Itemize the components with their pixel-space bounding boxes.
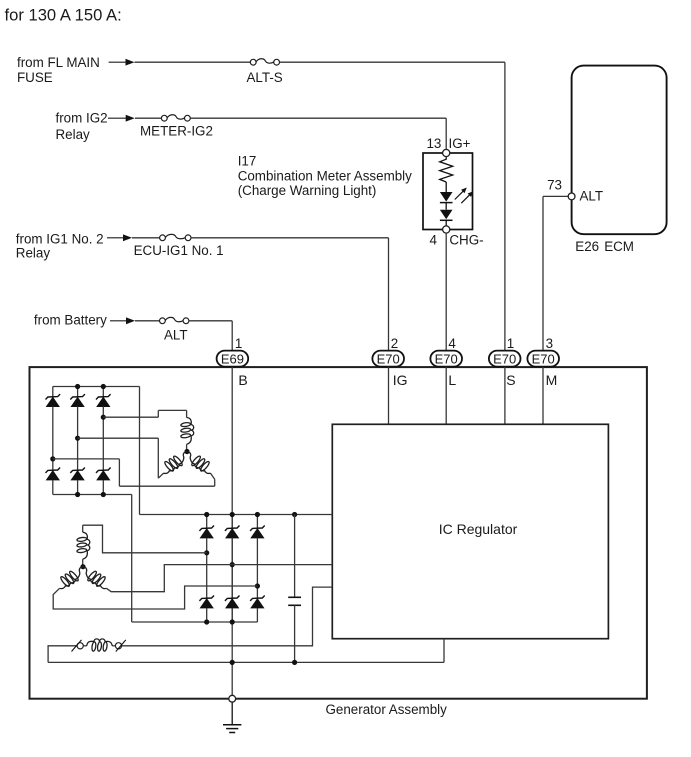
svg-text:from IG1 No. 2: from IG1 No. 2 [16, 232, 104, 247]
svg-text:METER-IG2: METER-IG2 [140, 124, 213, 139]
svg-text:E70: E70 [377, 351, 400, 366]
svg-text:E70: E70 [435, 351, 458, 366]
svg-text:2: 2 [391, 336, 398, 351]
svg-text:S: S [506, 372, 515, 388]
svg-text:from FL MAIN: from FL MAIN [17, 55, 100, 70]
svg-text:1: 1 [507, 336, 514, 351]
svg-text:IC Regulator: IC Regulator [439, 521, 518, 537]
svg-text:FUSE: FUSE [17, 70, 53, 85]
svg-text:I17: I17 [238, 154, 257, 169]
svg-text:4: 4 [430, 233, 438, 248]
svg-text:4: 4 [448, 336, 456, 351]
svg-text:ALT: ALT [580, 188, 604, 203]
svg-text:1: 1 [235, 336, 242, 351]
svg-text:M: M [546, 372, 558, 388]
svg-text:(Charge Warning Light): (Charge Warning Light) [238, 183, 377, 198]
svg-text:3: 3 [546, 336, 553, 351]
svg-text:ALT: ALT [164, 328, 188, 343]
svg-text:for 130 A 150 A:: for 130 A 150 A: [5, 5, 122, 24]
svg-text:13: 13 [426, 136, 441, 151]
svg-text:E70: E70 [493, 351, 516, 366]
svg-text:from Battery: from Battery [34, 312, 107, 327]
svg-text:ECU-IG1 No. 1: ECU-IG1 No. 1 [134, 243, 224, 258]
svg-text:from IG2: from IG2 [56, 111, 108, 126]
svg-text:IG+: IG+ [449, 136, 471, 151]
svg-text:IG: IG [393, 372, 408, 388]
svg-text:Relay: Relay [16, 245, 51, 260]
svg-text:73: 73 [547, 178, 562, 193]
svg-text:L: L [448, 372, 456, 388]
svg-text:B: B [238, 372, 247, 388]
svg-text:E26: E26 [575, 239, 599, 254]
svg-text:Combination Meter Assembly: Combination Meter Assembly [238, 168, 412, 183]
svg-text:Generator Assembly: Generator Assembly [326, 702, 448, 717]
svg-text:E70: E70 [532, 351, 555, 366]
svg-text:Relay: Relay [56, 127, 91, 142]
svg-text:ALT-S: ALT-S [247, 70, 283, 85]
svg-text:E69: E69 [221, 351, 244, 366]
svg-text:CHG-: CHG- [449, 233, 483, 248]
svg-text:ECM: ECM [604, 239, 634, 254]
